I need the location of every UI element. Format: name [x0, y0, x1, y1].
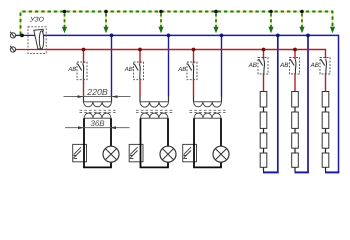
- svg-text:АВ: АВ: [177, 66, 186, 73]
- svg-text:36В: 36В: [90, 119, 105, 128]
- svg-text:АВ: АВ: [248, 62, 257, 69]
- svg-text:220В: 220В: [86, 87, 108, 97]
- svg-text:АВ: АВ: [310, 62, 319, 69]
- svg-text:АВ: АВ: [279, 62, 288, 69]
- svg-text:УЗО: УЗО: [29, 17, 44, 24]
- svg-text:АВ: АВ: [67, 66, 76, 73]
- svg-text:АВ: АВ: [124, 66, 133, 73]
